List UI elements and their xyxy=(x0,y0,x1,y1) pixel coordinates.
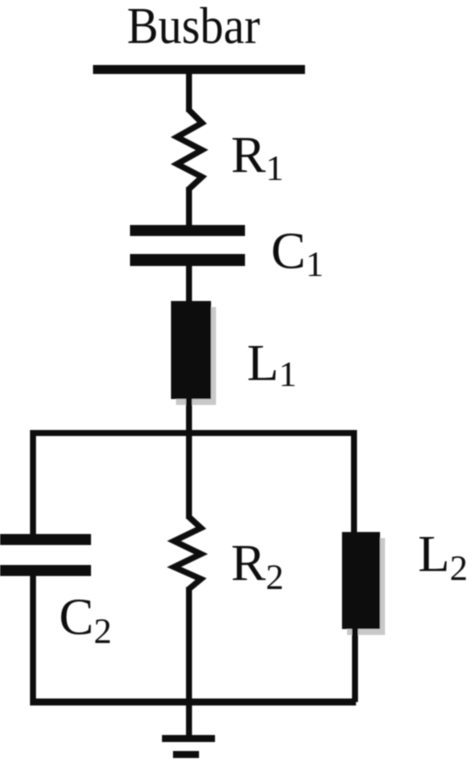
busbar bar xyxy=(93,65,305,74)
wire C1 to L1 xyxy=(186,264,192,303)
node junction wire horizontal xyxy=(30,430,356,436)
resistor R2 xyxy=(174,517,201,589)
svg-text:Busbar: Busbar xyxy=(127,0,260,55)
wire bottom horizontal xyxy=(30,699,356,706)
wire R1 to C1 xyxy=(186,187,192,227)
wire L1 to node xyxy=(186,397,192,433)
ground xyxy=(162,735,215,758)
capacitor C2 xyxy=(0,534,91,576)
resistor R1 xyxy=(177,110,202,189)
wire left branch top xyxy=(30,430,36,538)
wire busbar to R1 xyxy=(186,73,192,112)
inductor L1 xyxy=(171,301,216,405)
wire left branch bottom xyxy=(30,573,36,702)
wire to ground xyxy=(186,702,192,737)
wire right branch top xyxy=(351,430,357,535)
wire right branch bottom xyxy=(352,627,358,702)
capacitor C1 xyxy=(130,225,245,266)
wire node to R2 xyxy=(186,433,192,519)
inductor L2 xyxy=(342,532,385,635)
wire R2 to bottom xyxy=(186,587,192,702)
